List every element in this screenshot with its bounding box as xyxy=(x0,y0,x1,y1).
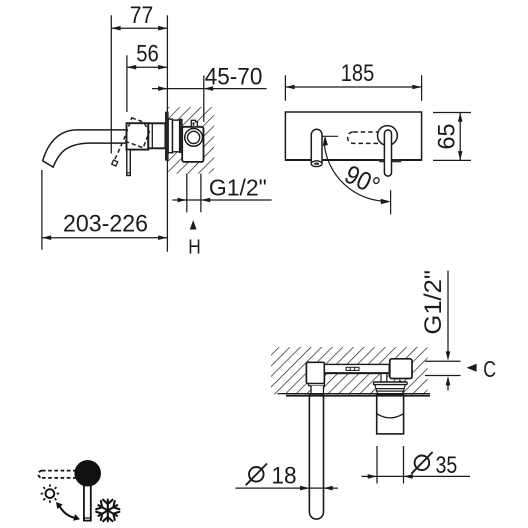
body sleeve xyxy=(148,123,165,148)
dashed knob rotated xyxy=(123,118,149,148)
dimension 185 xyxy=(285,60,421,101)
step cylinder 3 dark xyxy=(180,119,183,153)
dimension C xyxy=(425,356,496,390)
spout front view xyxy=(311,129,322,166)
escutcheon plate xyxy=(165,112,168,160)
G1/2 BR dimension xyxy=(420,270,451,361)
svg-text:G1/2": G1/2" xyxy=(420,270,447,335)
lever end cap open xyxy=(112,160,118,166)
wall hatch BR xyxy=(271,347,428,395)
svg-text:C: C xyxy=(483,356,496,382)
dimension 45-70 xyxy=(152,63,267,122)
svg-text:G1/2": G1/2" xyxy=(209,174,267,200)
dimension 65 xyxy=(433,113,471,161)
body arm xyxy=(324,364,389,373)
G1/2 TL dimension xyxy=(173,174,272,259)
dimension 77 xyxy=(111,2,167,153)
svg-text:185: 185 xyxy=(341,60,375,87)
wall hatch TL xyxy=(168,107,214,174)
svg-text:203-226: 203-226 xyxy=(63,211,148,238)
dimension dia 18 xyxy=(235,463,338,491)
step cylinder 1 xyxy=(168,119,172,153)
right block (valve) xyxy=(390,359,412,382)
dashed lever xyxy=(115,143,123,160)
solid lever xyxy=(127,150,131,176)
dimension 203-226 xyxy=(42,112,167,252)
icon lever vertical xyxy=(75,460,101,521)
svg-text:65: 65 xyxy=(434,124,461,150)
wall face lines xyxy=(278,394,431,396)
spout side view xyxy=(43,130,128,167)
inlet circle outer xyxy=(185,129,203,147)
icon rotation arrow xyxy=(56,502,80,521)
svg-text:56: 56 xyxy=(136,41,159,68)
dashed lever horizontal position xyxy=(348,132,389,143)
inlet circle inner xyxy=(188,131,200,143)
spout tube (long, down) xyxy=(309,386,323,519)
svg-text:18: 18 xyxy=(271,463,296,490)
icon dashed lever horizontal xyxy=(38,471,76,478)
handle side view xyxy=(112,118,166,176)
svg-text:77: 77 xyxy=(130,2,154,29)
handle knob solid xyxy=(127,123,149,149)
icon knob xyxy=(75,460,101,486)
faceplate xyxy=(285,112,421,160)
svg-text:35: 35 xyxy=(436,452,458,479)
dimension 56 xyxy=(127,41,167,112)
svg-text:H: H xyxy=(188,237,201,259)
handle flange stack xyxy=(374,382,408,394)
90 degree arc xyxy=(322,136,391,215)
handle cylinder below wall xyxy=(377,394,404,434)
valve body block xyxy=(182,127,203,162)
supply stub xyxy=(191,120,197,127)
dimension dia 35 xyxy=(362,446,471,484)
svg-text:45-70: 45-70 xyxy=(205,63,263,90)
valve body in wall TL xyxy=(165,112,203,162)
icon sun (hot) xyxy=(41,484,59,502)
icon snowflake (cold) xyxy=(96,500,119,522)
left block (spout connection) xyxy=(306,362,324,386)
shaft to flange xyxy=(381,374,387,383)
handle front view xyxy=(378,126,402,177)
step cylinder 2 xyxy=(173,120,180,152)
